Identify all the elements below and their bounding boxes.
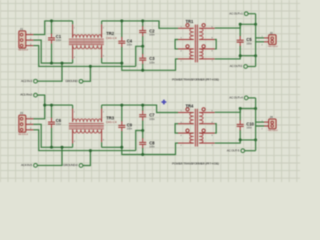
capacitor C5 (output) — [239, 24, 241, 36]
capacitor C8 (Y cap lower) — [142, 131, 144, 139]
wire L rail after choke — [102, 21, 178, 28]
node AC in negative to N rail junction — [61, 62, 64, 65]
wire secondary bottom to output — [215, 56, 256, 59]
capacitor C3 (Y cap lower) — [142, 46, 144, 54]
svg-text:100n: 100n — [56, 123, 62, 126]
transformer TR1 polarity dots — [186, 24, 189, 27]
svg-text:100n: 100n — [127, 44, 133, 47]
schematic sheet background — [0, 0, 300, 182]
connector J3 (3-pin terminal block) — [19, 115, 26, 132]
sheet origin marker (blue cross) — [162, 100, 165, 103]
transformer TR3 bottom winding — [73, 130, 102, 134]
transformer TR2 bottom winding — [73, 45, 102, 49]
svg-text:TR4: TR4 — [186, 103, 194, 108]
wire secondary top to C5 — [215, 24, 256, 28]
node Y-cap midpoint junction — [141, 45, 144, 48]
wire TR4 primary series link — [175, 124, 178, 133]
wire TR4 secondary series link — [215, 124, 217, 133]
node C10 top junction — [239, 107, 242, 110]
node Y-cap midpoint junction — [141, 129, 144, 132]
svg-text:100n: 100n — [149, 146, 155, 149]
transformer TR3 core — [69, 122, 104, 124]
svg-text:100n: 100n — [56, 39, 62, 42]
transformer TR2 leads — [72, 21, 74, 24]
capacitor C1 — [51, 21, 53, 34]
connector J2 (2-pin terminal block) — [256, 37, 264, 39]
node C8 bottom junction — [141, 153, 144, 156]
capacitor C10 (output) — [239, 109, 241, 121]
svg-text:TR1: TR1 — [186, 19, 194, 24]
svg-text:AC OUT+4: AC OUT+4 — [229, 96, 243, 100]
svg-text:TR3: TR3 — [106, 115, 114, 120]
node output- bus junction — [254, 138, 257, 141]
svg-text:CHG-1 H: CHG-1 H — [106, 36, 117, 40]
node C9 bottom junction — [120, 146, 123, 149]
wire output bus vertical — [255, 14, 257, 67]
capacitor C2 (Y cap upper) — [142, 21, 144, 27]
wire TR1 primary series link — [175, 40, 178, 49]
transformer TR4 primary windings — [190, 113, 194, 124]
node C3 bottom junction — [141, 69, 144, 72]
node output- bus junction — [254, 54, 257, 57]
capacitor C9 (X2 cap) — [121, 105, 123, 121]
svg-text:TBLOCK-I2: TBLOCK-I2 — [268, 130, 279, 132]
transformer TR3 top winding — [73, 119, 102, 122]
svg-text:J2: J2 — [270, 31, 274, 35]
wire L rail after choke — [102, 105, 178, 112]
wire N rail after choke — [102, 143, 178, 154]
node ground terminal junction — [89, 149, 92, 152]
wire secondary top to C10 — [215, 109, 256, 113]
transformer TR4 pins — [178, 112, 194, 114]
svg-text:J3: J3 — [20, 111, 24, 115]
transformer TR4 core — [194, 109, 196, 147]
svg-text:AC OUT+1: AC OUT+1 — [229, 11, 243, 15]
node C6 top junction — [50, 104, 53, 107]
svg-text:100n: 100n — [149, 118, 155, 121]
svg-text:J1: J1 — [20, 27, 24, 31]
transformer TR1 primary windings — [190, 28, 194, 39]
wire J1 pin2 to N rail — [33, 40, 72, 63]
wire N rail after choke — [102, 59, 178, 70]
node C10 bottom junction — [239, 138, 242, 141]
capacitor C4 (X2 cap) — [121, 21, 123, 37]
transformer TR2 top winding — [73, 35, 102, 38]
node C1 top junction — [50, 19, 53, 22]
svg-text:TR2: TR2 — [106, 31, 114, 36]
node C2 top junction — [141, 19, 144, 22]
node C4 top junction — [120, 19, 123, 22]
node output+ bus junction — [254, 23, 257, 26]
svg-text:AC OUT-5: AC OUT-5 — [227, 148, 240, 152]
connector J4 (2-pin terminal block) — [256, 121, 264, 123]
node C4 bottom junction — [120, 62, 123, 65]
node C5 top junction — [239, 23, 242, 26]
svg-text:100n: 100n — [246, 42, 252, 45]
node C9 top junction — [120, 104, 123, 107]
wire J3 pin1 to L rail — [33, 105, 72, 119]
svg-text:POWER TRANSFORMER (PF7-4 DE): POWER TRANSFORMER (PF7-4 DE) — [172, 77, 219, 81]
transformer TR4 polarity dots — [186, 108, 189, 111]
transformer TR2 core — [69, 38, 104, 40]
wire TR1 secondary series link — [215, 40, 217, 49]
connector J1 (3-pin terminal block) — [19, 31, 26, 48]
svg-text:GROUND: GROUND — [65, 79, 78, 83]
wire secondary bottom to output — [215, 140, 256, 143]
svg-text:100n: 100n — [149, 34, 155, 37]
capacitor C6 — [51, 105, 53, 118]
svg-text:100n: 100n — [127, 128, 133, 131]
node AC1 IN+2 junction on L rail — [43, 104, 46, 107]
node AC in negative to N rail junction — [61, 146, 64, 149]
capacitor C7 (Y cap upper) — [142, 105, 144, 111]
node ground terminal junction — [89, 65, 92, 68]
svg-text:AC OUT-0: AC OUT-0 — [230, 64, 243, 68]
svg-text:AC1 IN+2: AC1 IN+2 — [20, 93, 32, 97]
wire J1 pin3 to ground rail — [33, 46, 135, 67]
svg-text:POWER TRANSFORMER (PF7-4 DE): POWER TRANSFORMER (PF7-4 DE) — [172, 162, 219, 166]
node C1 bottom junction — [50, 62, 53, 65]
wire J3 pin2 to N rail — [33, 124, 72, 147]
node C5 bottom junction — [239, 54, 242, 57]
node C7 top junction — [141, 104, 144, 107]
node C6 bottom junction — [50, 146, 53, 149]
wire output bus vertical — [255, 98, 257, 151]
svg-text:AC2 IN-3: AC2 IN-3 — [21, 79, 32, 83]
svg-text:TBLOCK-I2: TBLOCK-I2 — [268, 46, 279, 48]
wire J3 pin3 to ground rail — [33, 130, 135, 151]
transformer TR3 leads — [72, 105, 74, 108]
node output+ bus junction — [254, 107, 257, 110]
svg-text:100n: 100n — [149, 61, 155, 64]
svg-text:TBLOCK-I3: TBLOCK-I3 — [18, 50, 29, 52]
svg-text:J4: J4 — [270, 115, 274, 119]
transformer TR4 secondary windings — [199, 113, 203, 124]
svg-text:CHG-1 H: CHG-1 H — [106, 120, 117, 124]
transformer TR1 pins — [178, 27, 194, 29]
svg-text:GROUND-0: GROUND-0 — [63, 163, 78, 167]
svg-text:100n: 100n — [246, 127, 252, 130]
wire ground rail to Y-cap midpoint — [136, 131, 143, 151]
wire J1 pin1 to L rail — [33, 21, 72, 35]
wire ground rail to Y-cap midpoint — [136, 46, 143, 66]
svg-text:TBLOCK-I3: TBLOCK-I3 — [18, 134, 29, 136]
svg-text:AC4 IN-5: AC4 IN-5 — [21, 163, 32, 167]
transformer TR1 core — [194, 25, 196, 63]
transformer TR1 secondary windings — [199, 28, 203, 39]
